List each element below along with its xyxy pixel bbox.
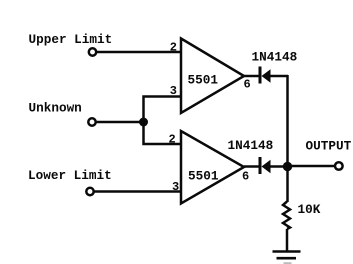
diode D1 1N4148 (triangle) [262,69,271,82]
terminal Unknown input [88,118,95,125]
svg-text:Upper Limit: Upper Limit [29,32,113,47]
wire junction up to U1 pin 3 [144,97,182,123]
diode D2 1N4148 (cathode bar) [259,157,262,174]
op-amp U1 (5501 top) [181,39,244,114]
svg-text:2: 2 [170,41,177,55]
svg-text:5501: 5501 [188,169,219,184]
svg-text:5501: 5501 [188,73,219,88]
junction Unknown node [139,118,148,127]
wire D2 to output node [271,165,288,168]
wire resistor R1 to ground [286,229,289,252]
wire output node down to resistor R1 [286,167,289,203]
wire output node to terminal [288,165,335,168]
svg-text:2: 2 [169,133,176,147]
wire U2 output to diode D2 [244,165,259,168]
svg-text:10K: 10K [298,202,321,217]
terminal Upper Limit input [89,48,96,55]
diode D1 1N4148 (cathode bar) [259,67,262,84]
svg-text:1N4148: 1N4148 [252,50,298,65]
ground [273,252,301,264]
wire corner down to output node [286,75,289,167]
svg-text:1N4148: 1N4148 [228,138,274,153]
terminal OUTPUT [335,162,343,170]
svg-text:6: 6 [244,78,251,92]
svg-text:Unknown: Unknown [29,101,82,116]
wire Lower Limit to U2 pin 3 [94,190,181,193]
wire U1 output to diode D1 [244,75,259,78]
svg-text:OUTPUT: OUTPUT [306,139,352,154]
svg-text:6: 6 [242,170,249,184]
svg-text:Lower Limit: Lower Limit [28,168,112,183]
resistor R1 10K [283,202,290,230]
op-amp U2 (5501 bottom) [181,131,244,204]
junction output node [283,162,292,171]
wire Unknown to junction [96,121,143,124]
terminal Lower Limit input [86,188,93,195]
diode D2 1N4148 (triangle) [262,160,271,173]
wire D1 to corner [271,75,289,78]
wire Upper Limit to U1 pin 2 [97,51,181,54]
wire junction down to U2 pin 2 [144,122,182,144]
